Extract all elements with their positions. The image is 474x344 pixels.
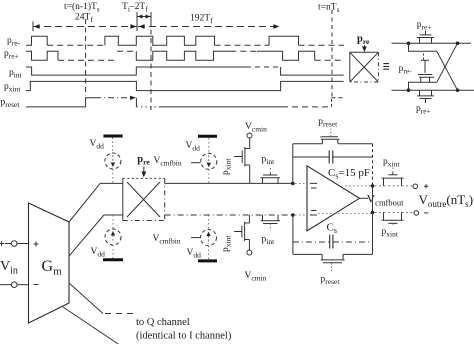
wire V_cmfbin to current source bottom [191, 237, 201, 239]
arrow from p_re to chopper box [363, 45, 365, 48]
EQUIVALENCE SECTION [350, 20, 474, 116]
svg-text:preset: preset [1, 98, 21, 110]
junction dots [407, 42, 411, 46]
current source bottom-left [105, 229, 121, 245]
capacitor Cs plates bottom [330, 235, 333, 249]
node: bottom rail [392, 89, 474, 91]
timeline dashed vertical x=151 [150, 21, 152, 110]
waveform p_re- dashed segments [47, 44, 105, 46]
timeline dashed vertical x=332 [331, 10, 333, 98]
svg-text:pre-: pre- [7, 36, 21, 48]
node A' dot [371, 184, 375, 188]
node B' dot [371, 211, 375, 215]
svg-text:to Q channel: to Q channel [136, 317, 190, 328]
top inner cap wire [293, 156, 373, 158]
wire V_cmin bottom branch [248, 215, 250, 223]
lead rail to current source bottom-left [112, 215, 114, 229]
op-amp triangle [307, 166, 360, 231]
current source bottom-right [201, 230, 217, 246]
dotted wire into op-amp bottom [295, 214, 307, 216]
dimension tick x=151 [150, 12, 152, 21]
terminal circle output top [413, 184, 418, 189]
top feedback outer loop [293, 143, 323, 145]
svg-text:pint: pint [262, 155, 276, 167]
bottom inner cap wire [293, 241, 373, 243]
svg-text:pxint: pxint [221, 158, 233, 175]
wire to Q channel diagonal 2 [63, 307, 118, 344]
waveform p_reset [26, 98, 95, 107]
lead current source to Vdd bar bottom-left [112, 245, 114, 258]
wire to Q channel diagonal 1 [69, 283, 103, 314]
node B dot on bottom rail [291, 213, 295, 217]
wire input bottom [0, 284, 11, 286]
svg-text:Vcmfbin: Vcmfbin [154, 156, 182, 168]
transistor p_xint (top V_cmin branch) [234, 147, 250, 167]
svg-text:192Tf: 192Tf [190, 14, 213, 26]
node A dot [291, 182, 295, 186]
wire top rail into chopper [100, 182, 123, 184]
transistor p_int top rail [261, 173, 281, 183]
svg-text:preset: preset [318, 117, 338, 129]
Gm transconductor body [29, 203, 70, 323]
dimension tick x=137 [136, 12, 138, 31]
top rail after chopper [165, 182, 293, 184]
svg-text:pre+: pre+ [417, 20, 432, 32]
svg-text:Vdd: Vdd [91, 247, 106, 259]
svg-text:pxint: pxint [383, 157, 400, 169]
wire to Q channel dashes [105, 313, 133, 315]
wire bottom rail into chopper [104, 214, 123, 216]
chopper box symbol [350, 52, 379, 82]
wire input top [5, 243, 11, 245]
wire Gm bottom output diagonal [69, 215, 104, 256]
svg-text:Vdd: Vdd [186, 141, 201, 153]
transistor p_xint (bottom V_cmin branch) [234, 222, 249, 242]
lead current source to Vdd bar bottom-right [208, 246, 210, 260]
Vdd bar top-left [103, 135, 122, 138]
terminal circle input top [11, 241, 17, 247]
dimension arrow Ti-2Tf (y=16.5) [137, 16, 151, 18]
Vdd bar top-right [198, 135, 217, 138]
waveform p_int [26, 67, 246, 75]
output wire top (dashed) [375, 185, 414, 187]
svg-text:pint: pint [9, 68, 23, 80]
wire to Gm bottom [17, 284, 29, 286]
op-amp input - marks [310, 183, 317, 188]
svg-text:Vdd: Vdd [187, 248, 202, 260]
top feedback outer loop right [338, 143, 373, 145]
lead Vdd to current source [112, 138, 114, 154]
wire to Gm top [17, 243, 29, 245]
svg-text:pxint: pxint [382, 227, 399, 239]
dimension line 24Tf (dashed, y=26.5) [33, 26, 137, 28]
input + terminal mark [0, 241, 4, 246]
transistor middle (p_re- switch) [423, 54, 425, 60]
dotted wire through to output node top [345, 185, 371, 187]
svg-text:Vcmfbin: Vcmfbin [153, 234, 181, 246]
transistor bottom (p_re+ switch) [417, 90, 434, 103]
lead current source to rail top-right [208, 169, 210, 183]
lead Vdd to current source top-right [208, 138, 210, 153]
svg-text:pxint: pxint [221, 235, 233, 252]
bottom rail after chopper (dash-dot) [165, 214, 293, 216]
svg-text:pint: pint [262, 235, 276, 247]
svg-text:24Tf: 24Tf [75, 13, 93, 25]
wire Gm top output diagonal [69, 183, 100, 222]
dimension line 192Tf (dashed, y=26.5) [138, 26, 280, 28]
svg-text:t=nTs: t=nTs [318, 3, 340, 15]
Vdd bar bottom-right [198, 259, 217, 262]
bottom feedback left vertical [292, 215, 294, 254]
svg-text:preset: preset [321, 275, 341, 287]
transistor p_int bottom rail [261, 215, 281, 224]
wire transistor to terminal [248, 240, 250, 251]
crossing wire D1 [437, 51, 458, 90]
svg-text:pre-: pre- [399, 64, 413, 76]
transistor top (p_re+ switch) [417, 31, 434, 44]
Gm - input mark [34, 284, 39, 286]
transistor p_reset top [321, 137, 340, 144]
terminal circle output bottom [414, 211, 419, 216]
Gm + input mark [34, 242, 39, 247]
terminal circle input bottom [11, 282, 17, 288]
svg-text:Vdd: Vdd [90, 139, 105, 151]
MAIN CIRCUIT SECTION [0, 122, 295, 344]
Vdd bar bottom-left [103, 258, 123, 261]
transistor p_xint output bottom [382, 212, 404, 223]
svg-text:Vcmin: Vcmin [245, 271, 267, 283]
svg-text:Ti–2Tf: Ti–2Tf [122, 2, 148, 14]
bottom feedback outer loop [293, 253, 322, 255]
dotted wire through to output node bottom [318, 213, 371, 215]
terminal V_cmin bottom [247, 250, 252, 255]
apex to output [360, 197, 369, 199]
wire L from top-left dot [409, 43, 437, 51]
top feedback right vertical (dashed) [372, 144, 374, 184]
wire L from bottom-left dot [409, 82, 437, 90]
transistor p_reset bottom [321, 254, 345, 262]
chopper box X [350, 52, 379, 82]
svg-text:pxint: pxint [4, 82, 21, 94]
output vertical [372, 186, 374, 255]
svg-text:pre+: pre+ [4, 49, 19, 61]
small + mark [424, 184, 428, 188]
top feedback left vertical [292, 144, 294, 184]
wire V_cmfbin to current source [191, 162, 201, 164]
bottom feedback outer loop right [343, 212, 372, 254]
small dash mark [424, 212, 428, 214]
lead rail to current source bottom-right [208, 215, 210, 230]
INTEGRATOR SECTION [293, 117, 473, 286]
waveform p_re+ solid segments [26, 51, 58, 60]
svg-text:Vcmin: Vcmin [245, 122, 267, 134]
output wire bottom (dashed) [375, 211, 415, 213]
TIMING DIAGRAM SECTION [1, 1, 345, 110]
chopper X [127, 182, 160, 217]
current source top-left [105, 153, 121, 169]
waveform p_re- solid segments [26, 36, 47, 45]
chopper box [122, 178, 124, 220]
terminal V_cmin top [247, 133, 252, 138]
dimension tick x=33 [32, 22, 34, 32]
arrow p_re to chopper [143, 167, 145, 173]
lead current source to rail [112, 169, 114, 183]
transistor p_xint output top [382, 173, 404, 186]
wire transistor to rail [249, 165, 251, 183]
svg-text:Voutre(nTs): Voutre(nTs) [419, 192, 474, 209]
capacitor Cs=15pF plates [329, 151, 333, 164]
node: top rail [392, 42, 472, 44]
svg-text:Cs=15 pF: Cs=15 pF [328, 167, 370, 181]
dotted wire into op-amp top [295, 182, 307, 184]
equivalence sign [383, 64, 389, 70]
crossing wire D2 [437, 43, 458, 82]
current source top-right [201, 153, 217, 169]
waveform p_xint [26, 81, 344, 90]
svg-text:pre+: pre+ [416, 104, 431, 116]
waveform p_re+ dashed segments [58, 59, 117, 61]
svg-text:(identical to I channel): (identical to I channel) [136, 331, 232, 342]
wire V_cmin down [249, 138, 251, 149]
timeline dashed vertical x=85.6 [85, 19, 87, 96]
